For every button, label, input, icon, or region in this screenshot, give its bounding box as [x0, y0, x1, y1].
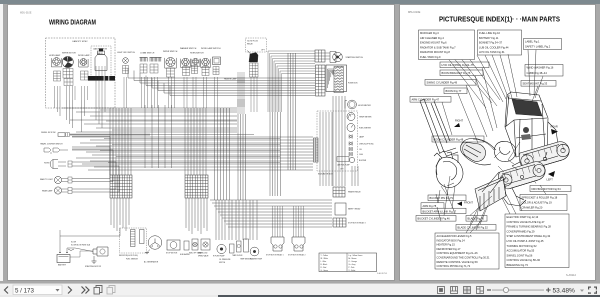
fuse box connector left: [316, 65, 326, 96]
temp meter: [347, 113, 355, 121]
bottom-right list: [505, 214, 569, 268]
wire drops from canopy components: [54, 86, 56, 100]
svg-text:SWING CYLINDER Fig.49: SWING CYLINDER Fig.49: [427, 81, 458, 85]
hatch block A: [110, 175, 132, 198]
hatch block B: [185, 175, 208, 198]
svg-text:SAFETY RELAY: SAFETY RELAY: [348, 208, 361, 211]
indicator box interior verticals: [319, 112, 321, 186]
svg-text:GLOW PLUG: GLOW PLUG: [247, 41, 258, 43]
washer pump: [250, 247, 259, 256]
svg-text:HORN: HORN: [44, 163, 50, 165]
vertical bundle mid: [287, 53, 289, 170]
svg-text:REMOTE CONTROL VALVE Fig.59: REMOTE CONTROL VALVE Fig.59: [437, 260, 479, 264]
page input box: [13, 285, 62, 295]
svg-text:RADIATOR MOUNT Fig.8: RADIATOR MOUNT Fig.8: [420, 50, 450, 54]
svg-text:RESISTOR(GLOW PLUG): RESISTOR(GLOW PLUG): [119, 255, 138, 257]
view icon 1: [438, 287, 445, 294]
engine deck rear: [547, 122, 558, 148]
horizontal buses mid upper extra: [100, 109, 237, 111]
direction: REAR: [551, 125, 559, 135]
svg-text:O : Orange: O : Orange: [349, 260, 357, 263]
svg-text:HYD OIL PUMP & JOINT Fig.45: HYD OIL PUMP & JOINT Fig.45: [507, 239, 545, 243]
svg-text:L : Blue: L : Blue: [321, 261, 327, 263]
front crawler track: [498, 162, 545, 189]
svg-text:SAFETY LABEL Fig.2: SAFETY LABEL Fig.2: [525, 45, 551, 49]
svg-text:OPT: OPT: [340, 169, 343, 171]
radio unit: [95, 55, 107, 71]
cab roof hatch: [512, 99, 542, 116]
vertical bundle right: [269, 112, 271, 196]
svg-text:SWIVEL JOINT Fig.56: SWIVEL JOINT Fig.56: [507, 253, 533, 257]
label: blade cylinder: [456, 225, 496, 231]
label: boom cylinder: [432, 136, 484, 142]
horizontal bus fan right: [268, 50, 315, 52]
bottom mesh horizontals: [210, 199, 332, 201]
oil pressure switch: [230, 244, 235, 253]
svg-text:CONTROL VALVE PLATE Fig.27: CONTROL VALVE PLATE Fig.27: [507, 220, 546, 224]
svg-text:FRONT: FRONT: [464, 201, 473, 205]
svg-text:LABEL Fig.1: LABEL Fig.1: [525, 40, 540, 44]
svg-text:V : Violet: V : Violet: [349, 269, 356, 272]
svg-text:RELAY: RELAY: [247, 43, 254, 46]
svg-text:FUSE BOX: FUSE BOX: [348, 83, 358, 85]
label: swing cylinder: [425, 80, 476, 86]
swing bracket / boom base: [494, 141, 515, 161]
slider track: [492, 289, 544, 292]
svg-text:WIRING DIAGRAM: WIRING DIAGRAM: [49, 18, 96, 27]
bucket: [436, 157, 463, 187]
svg-text:G : Green: G : Green: [321, 269, 328, 272]
toolbar next arrow: [68, 287, 72, 294]
indicator box dashed: [317, 111, 358, 171]
svg-text:WASHER PUMP: WASHER PUMP: [250, 258, 262, 261]
resistor glow plug dashed box: [120, 228, 147, 253]
stop motor relay 2: [293, 206, 295, 237]
boom details: [463, 139, 494, 155]
cab outline: [505, 92, 548, 157]
label: bucket arm link: [421, 208, 466, 213]
temp sensor: [244, 239, 249, 252]
svg-text:BUCKET CYLINDER Fig.46: BUCKET CYLINDER Fig.46: [418, 217, 451, 221]
blade: [475, 177, 506, 211]
svg-text:BATTERY Fig.11: BATTERY Fig.11: [479, 36, 499, 40]
svg-text:SPROCKET & ROLLER Fig.18: SPROCKET & ROLLER Fig.18: [522, 196, 558, 200]
label: sprocket 3-line: [520, 195, 567, 211]
svg-text:INDICATOR BOX: INDICATOR BOX: [318, 173, 333, 176]
view icon 4: [477, 287, 484, 294]
label: driving motor: [530, 186, 571, 192]
svg-text:ELECTRIC PART Fig.12,13: ELECTRIC PART Fig.12,13: [507, 215, 539, 219]
radio cap: [99, 49, 103, 52]
svg-text:BONNET Fig.34~37: BONNET Fig.34~37: [479, 41, 503, 45]
svg-text:TEMP UN PUR: TEMP UN PUR: [232, 255, 243, 257]
svg-text:BUCKET PIN Fig.79: BUCKET PIN Fig.79: [430, 196, 454, 200]
fuel opt valve: [192, 239, 198, 250]
vertical mesh connectors A: [109, 108, 111, 175]
slider knob: [503, 287, 508, 292]
svg-text:STOP MOTOR RELAY 2: STOP MOTOR RELAY 2: [288, 254, 306, 257]
svg-text:M5U-010E: M5U-010E: [20, 12, 32, 15]
indicator connector strip: [314, 138, 319, 162]
combi switch B: [150, 57, 162, 59]
svg-text:ACCELERATOR LEVER Fig.5: ACCELERATOR LEVER Fig.5: [437, 234, 472, 238]
long vertical drops to mid band: [54, 100, 56, 108]
svg-text:LIGHT OFF SWITCH: LIGHT OFF SWITCH: [117, 52, 135, 54]
bottom-left list: [435, 233, 499, 269]
svg-text:DRIVING MOTOR Fig.54: DRIVING MOTOR Fig.54: [532, 187, 562, 191]
toolbar prev arrow: [5, 287, 9, 294]
svg-text:BOOM Fig.77: BOOM Fig.77: [446, 89, 462, 93]
label: hyd oil piping: [440, 62, 489, 68]
svg-text:Gr : Gray: Gr : Gray: [349, 263, 356, 266]
svg-text:S-A5112V5: S-A5112V5: [377, 272, 388, 275]
svg-text:M5U-010E: M5U-010E: [408, 10, 421, 14]
svg-text:RADIATOR & SUB TANK Fig.7: RADIATOR & SUB TANK Fig.7: [420, 45, 456, 49]
svg-text:HORN SWITCH: HORN SWITCH: [190, 53, 204, 55]
combi switch A: [140, 57, 148, 59]
svg-text:INDICATOR BOX Fig.14: INDICATOR BOX Fig.14: [437, 238, 466, 242]
hi push pump: [217, 244, 226, 253]
view icon 2: [451, 287, 458, 294]
svg-text:ENGINE MOUNT Fig.6: ENGINE MOUNT Fig.6: [420, 41, 447, 45]
svg-text:WORK LAMP SWITCH: WORK LAMP SWITCH: [201, 47, 221, 50]
connector under wiper motor: [64, 79, 73, 86]
svg-text:WIND WASHER Fig.16: WIND WASHER Fig.16: [527, 66, 554, 70]
label: arm: [421, 203, 444, 208]
vertical mesh connectors mid: [144, 105, 146, 168]
horizontal buses mid lower extra: [104, 138, 280, 140]
stop motor relay 1: [272, 206, 274, 237]
svg-text:TURNING MOTOR Fig.52: TURNING MOTOR Fig.52: [507, 244, 538, 248]
elb heater: [184, 241, 189, 250]
upper mesh horizontals: [128, 77, 315, 79]
svg-text:COVER(FRAME) Fig.29: COVER(FRAME) Fig.29: [507, 229, 536, 233]
bottom feed verticals: [215, 200, 217, 240]
hour meter: [345, 101, 347, 109]
label: arm cylinder: [410, 97, 451, 103]
svg-text:WORK LAMP: WORK LAMP: [78, 54, 90, 57]
svg-text:53.48%: 53.48%: [553, 288, 576, 295]
vertical bundle C: [237, 72, 239, 114]
svg-text:CANOPY SPEC: CANOPY SPEC: [72, 40, 88, 43]
excavator: [420, 92, 569, 224]
rear crawler track: [519, 142, 569, 170]
bucket cylinder rod: [444, 148, 458, 156]
label: bucket cylinder: [416, 216, 456, 222]
glow relay connector: [250, 63, 259, 77]
list box 1: [419, 30, 475, 60]
svg-text:BATTERY: BATTERY: [58, 264, 67, 267]
expand icon: [588, 287, 597, 294]
svg-text:STOP MOTOR: STOP MOTOR: [166, 253, 178, 255]
horizontal buses mid lower: [72, 136, 313, 138]
svg-text:WASHER SWITCH: WASHER SWITCH: [180, 47, 197, 50]
label: boom: [444, 88, 467, 94]
percent caret: [580, 290, 584, 292]
battery: [57, 255, 70, 263]
zoom minus: [487, 289, 491, 290]
leader lines bottom: [438, 176, 492, 224]
svg-text:L-g : Yellow Green: L-g : Yellow Green: [349, 254, 363, 257]
temp un pur: [237, 241, 242, 252]
boom cylinder body: [460, 142, 485, 161]
svg-text:STOP MOTOR RELAY 1: STOP MOTOR RELAY 1: [266, 254, 284, 257]
svg-text:SAFETY LIGHT: SAFETY LIGHT: [40, 178, 54, 181]
svg-text:STARTING SWITCH: STARTING SWITCH: [346, 56, 364, 59]
svg-text:FRAME & TURNING BEARING Fig.28: FRAME & TURNING BEARING Fig.28: [507, 225, 552, 229]
svg-text:FUEL LINE Fig.10: FUEL LINE Fig.10: [479, 31, 501, 35]
svg-text:ARM Fig.78: ARM Fig.78: [423, 204, 437, 208]
svg-text:SLOW BLOW FUSE 50A: SLOW BLOW FUSE 50A: [71, 244, 91, 247]
label: bucket pin: [428, 195, 466, 201]
svg-text:B : Black: B : Black: [321, 264, 328, 266]
svg-text:CONTROL VALVE Fig.58~60: CONTROL VALVE Fig.58~60: [507, 258, 541, 262]
rear track treads: [526, 144, 564, 160]
svg-text:BLADE CYLINDER Fig.52: BLADE CYLINDER Fig.52: [458, 226, 489, 230]
svg-text:P : Pink: P : Pink: [349, 267, 355, 269]
svg-text:PICTURESQUE INDEX(1)· · ·MAIN: PICTURESQUE INDEX(1)· · ·MAIN PARTS: [439, 15, 560, 24]
connectors under switches: [123, 66, 129, 74]
svg-text:CONTROL PIPING Fig.71,72: CONTROL PIPING Fig.71,72: [437, 264, 471, 268]
svg-text:SWITCH: SWITCH: [219, 262, 225, 264]
zoom plus: [546, 288, 551, 293]
left horizontals to mesh: [72, 136, 110, 138]
stop motor: [167, 240, 180, 250]
svg-text:LAMP: LAMP: [359, 136, 365, 139]
label: blade: [466, 216, 487, 222]
safety relay: [335, 203, 346, 215]
canopy spec dashed box: [46, 38, 116, 108]
svg-text:HEATER Fig.15: HEATER Fig.15: [437, 243, 456, 247]
ac generator: [148, 236, 162, 250]
svg-text:WIPER MOTOR: WIPER MOTOR: [62, 53, 76, 55]
svg-text:LEFT: LEFT: [547, 178, 554, 182]
svg-text:TRAVEL LOW/HIGH SWITCH: TRAVEL LOW/HIGH SWITCH: [40, 143, 63, 146]
horizontal buses mid upper: [62, 107, 237, 109]
aux unit: [213, 57, 221, 65]
cab w/option dashed box: [91, 46, 111, 79]
svg-text:COLOR & ADJUST Fig.19: COLOR & ADJUST Fig.19: [522, 201, 553, 205]
svg-text:5 / 173: 5 / 173: [15, 287, 34, 294]
svg-text:CHG: CHG: [359, 154, 364, 156]
connector pairs left: [68, 161, 72, 167]
svg-text:OIL PRESSURE: OIL PRESSURE: [219, 259, 230, 261]
view icon 3: [464, 287, 471, 294]
svg-text:HYD OIL TANK Fig.61: HYD OIL TANK Fig.61: [479, 50, 505, 54]
vertical bundle switches: [214, 108, 216, 200]
svg-text:BUZZER: BUZZER: [359, 160, 367, 162]
fuse box: [326, 65, 347, 92]
svg-text:HEATER RELAY: HEATER RELAY: [348, 191, 361, 194]
svg-text:Br : Brown: Br : Brown: [349, 257, 357, 260]
svg-text:FUEL TANK Fig.9: FUEL TANK Fig.9: [420, 55, 441, 59]
svg-text:STEP & INSTRUMENT PANEL Fig.32: STEP & INSTRUMENT PANEL Fig.32: [507, 234, 551, 238]
svg-text:HOUR METER: HOUR METER: [358, 105, 371, 107]
arm cylinder: [431, 101, 450, 143]
svg-text:BUCKET ARM & LINK Fig.77: BUCKET ARM & LINK Fig.77: [423, 209, 457, 213]
svg-text:HORN LAMP: HORN LAMP: [49, 54, 61, 57]
svg-text:REAR LAMP: REAR LAMP: [42, 190, 53, 193]
label: boom bracket: [440, 70, 483, 76]
copy icon 2 (disabled): [107, 286, 115, 295]
svg-text:SEAT MOUNT Fig.33: SEAT MOUNT Fig.33: [523, 82, 548, 86]
stop motor relay 3: [333, 218, 346, 227]
svg-text:COVER(AROUND THE CONTROL) Fig.: COVER(AROUND THE CONTROL) Fig.30,31: [437, 256, 491, 260]
svg-text:FUEL SENSOR: FUEL SENSOR: [126, 259, 139, 261]
direction: FRONT: [457, 201, 473, 207]
vertical mesh connectors B: [184, 108, 186, 175]
svg-text:AC GENERATOR: AC GENERATOR: [144, 261, 159, 264]
label: wind washer / cabin: [525, 65, 563, 77]
svg-text:RIGHT: RIGHT: [455, 119, 463, 123]
fuel meter: [347, 124, 355, 132]
svg-text:OPT: OPT: [261, 50, 266, 52]
svg-text:DIESEL KICK SW: DIESEL KICK SW: [41, 132, 56, 134]
fuse box step wires: [328, 69, 335, 88]
right column verticals: [332, 96, 334, 186]
drops below hatch B: [185, 198, 187, 228]
list box 3: [524, 39, 562, 50]
svg-text:BREAKING Fig.73: BREAKING Fig.73: [507, 263, 529, 267]
svg-text:SLOW: SLOW: [71, 242, 76, 244]
copy icon 1: [94, 286, 102, 295]
svg-text:CHECK(OPTION): CHECK(OPTION): [359, 144, 374, 146]
wire drops from switches: [123, 77, 125, 108]
svg-text:CONTROL EQUIPMENT Fig.21~26: CONTROL EQUIPMENT Fig.21~26: [437, 251, 479, 255]
svg-text:TEMP METER: TEMP METER: [359, 117, 372, 119]
starting motor: [93, 247, 108, 256]
indicator lamps: [349, 135, 352, 139]
svg-text:ARM CYLINDER Fig.47: ARM CYLINDER Fig.47: [412, 98, 440, 102]
direction: RIGHT: [454, 119, 463, 128]
svg-text:S-A5112: S-A5112: [566, 273, 576, 277]
svg-text:W : White: W : White: [321, 257, 328, 260]
arm: [420, 99, 444, 154]
ground symbol starting motor: [93, 256, 95, 261]
svg-text:CRAWLER Fig.20: CRAWLER Fig.20: [522, 206, 543, 210]
svg-text:DEFROSTER Fig.17: DEFROSTER Fig.17: [437, 247, 461, 251]
ground ac generator: [147, 250, 150, 253]
drops below hatch A: [110, 198, 112, 225]
wire color legend: [319, 253, 377, 272]
svg-text:CABIN Fig.38~44: CABIN Fig.38~44: [527, 71, 548, 75]
frame details: [494, 152, 518, 172]
glow plug relay dashed box: [246, 38, 267, 52]
svg-text:WIPER SWITCH: WIPER SWITCH: [163, 51, 178, 53]
front track treads: [504, 165, 536, 180]
svg-text:MUFFLER Fig.3: MUFFLER Fig.3: [420, 31, 439, 35]
glow relay drops: [250, 77, 252, 112]
undercarriage frame: [502, 152, 547, 206]
connector under work lamp: [81, 71, 89, 80]
svg-text:AIR FUEL PUMP: AIR FUEL PUMP: [338, 164, 350, 167]
thick bus: [70, 134, 151, 136]
starting switch connector: [315, 50, 325, 62]
battery wiring: [59, 230, 61, 253]
blade arms: [482, 172, 503, 193]
svg-text:Y : Yellow: Y : Yellow: [321, 255, 329, 257]
glow relay body: [249, 53, 258, 63]
svg-text:COMBI SWITCH: COMBI SWITCH: [140, 53, 155, 55]
svg-text:STOP MOTOR RELAY 3: STOP MOTOR RELAY 3: [348, 222, 366, 225]
toolbar last arrow: [82, 287, 90, 294]
travel 2nd speed valve: [201, 239, 210, 250]
direction: LEFT: [547, 171, 556, 182]
callout lines: [436, 50, 546, 233]
svg-text:FUEL METER: FUEL METER: [359, 128, 372, 130]
svg-text:STARTING MOTOR: STARTING MOTOR: [85, 265, 102, 268]
svg-text:ACCUMULATOR Fig.55: ACCUMULATOR Fig.55: [507, 249, 535, 253]
list box 2: [478, 30, 522, 55]
buzzer: [349, 157, 354, 162]
label: seat mount: [521, 81, 556, 87]
svg-text:HI PUSH PUMP: HI PUSH PUMP: [213, 256, 225, 258]
fuse strip bar: [88, 76, 115, 81]
boom: [461, 138, 496, 164]
svg-text:R : Red: R : Red: [321, 267, 327, 269]
operator seat: [523, 127, 529, 133]
svg-text:AIR CLEANER Fig.4: AIR CLEANER Fig.4: [420, 36, 444, 40]
svg-text:TRAVEL 2ND: TRAVEL 2ND: [198, 252, 208, 255]
svg-text:HYD OIL PIPING Fig.62~75: HYD OIL PIPING Fig.62~75: [442, 63, 475, 67]
connector under horn lamp: [54, 71, 61, 81]
svg-text:OIL: OIL: [359, 149, 362, 151]
starting switch: [330, 52, 336, 63]
heater relay: [333, 187, 345, 197]
svg-text:SPEED VALVE: SPEED VALVE: [198, 255, 208, 258]
svg-text:LUB OIL COOLER Fig.44: LUB OIL COOLER Fig.44: [479, 45, 509, 49]
